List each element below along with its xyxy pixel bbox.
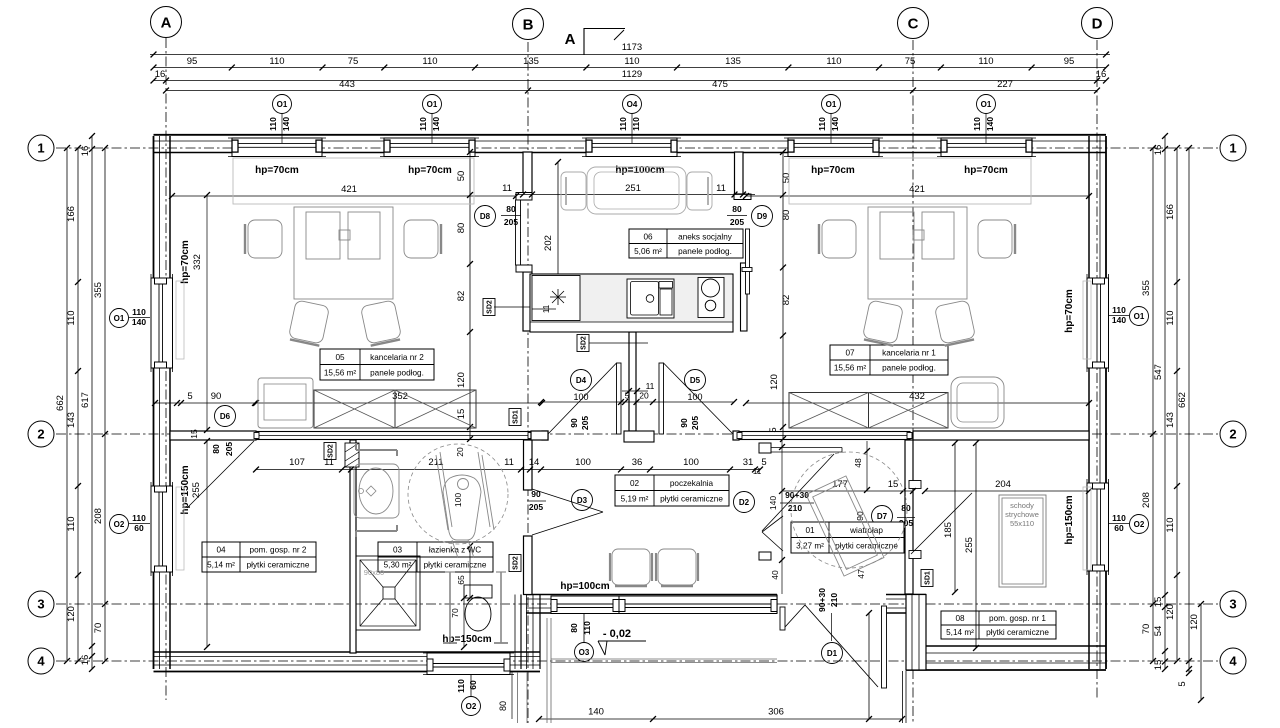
svg-text:306: 306 — [768, 707, 784, 718]
svg-text:O4: O4 — [627, 100, 638, 109]
svg-text:hp=70cm: hp=70cm — [964, 165, 1008, 176]
svg-text:SD2: SD2 — [487, 300, 494, 314]
svg-text:SD2: SD2 — [328, 444, 335, 458]
svg-text:48: 48 — [853, 458, 863, 468]
svg-text:140: 140 — [132, 317, 146, 327]
svg-text:110: 110 — [1112, 305, 1126, 315]
svg-text:pom. gosp. nr 1: pom. gosp. nr 1 — [989, 614, 1046, 623]
svg-text:31: 31 — [743, 457, 754, 468]
svg-text:03: 03 — [393, 546, 403, 555]
svg-text:443: 443 — [339, 79, 355, 90]
svg-text:110: 110 — [422, 56, 437, 67]
svg-text:11: 11 — [542, 304, 551, 313]
svg-text:płytki ceramiczne: płytki ceramiczne — [424, 561, 487, 570]
svg-text:80: 80 — [211, 444, 221, 454]
svg-text:C: C — [908, 15, 919, 32]
svg-text:pom. gosp. nr 2: pom. gosp. nr 2 — [250, 546, 307, 555]
svg-text:95: 95 — [1064, 56, 1075, 67]
svg-text:107: 107 — [289, 457, 305, 468]
svg-text:110: 110 — [66, 310, 77, 325]
svg-text:hp=70cm: hp=70cm — [811, 165, 855, 176]
svg-text:55x110: 55x110 — [1010, 519, 1034, 528]
svg-text:205: 205 — [690, 416, 700, 430]
svg-text:16: 16 — [80, 146, 91, 157]
svg-text:20: 20 — [455, 447, 465, 457]
svg-text:90x80: 90x80 — [364, 568, 384, 577]
svg-text:110: 110 — [66, 516, 77, 531]
svg-text:47: 47 — [856, 569, 866, 579]
svg-text:255: 255 — [191, 482, 202, 498]
svg-text:166: 166 — [66, 206, 77, 222]
svg-text:płytki ceramiczne: płytki ceramiczne — [247, 561, 310, 570]
svg-text:110: 110 — [978, 56, 993, 67]
svg-text:90: 90 — [531, 489, 541, 499]
svg-text:hp=70cm: hp=70cm — [180, 240, 191, 284]
svg-text:5: 5 — [768, 427, 779, 432]
svg-text:D7: D7 — [877, 512, 888, 521]
svg-text:D5: D5 — [690, 376, 701, 385]
svg-text:65: 65 — [456, 575, 466, 585]
svg-text:O1: O1 — [277, 100, 288, 109]
svg-text:110: 110 — [826, 56, 841, 67]
svg-text:185: 185 — [943, 522, 954, 538]
svg-text:100: 100 — [687, 392, 702, 402]
svg-text:1: 1 — [1229, 141, 1236, 156]
svg-text:166: 166 — [1165, 204, 1176, 220]
svg-text:15: 15 — [888, 479, 899, 490]
svg-text:547: 547 — [1153, 364, 1164, 380]
svg-text:90: 90 — [211, 391, 222, 402]
svg-text:110: 110 — [132, 307, 146, 317]
svg-text:5,06 m²: 5,06 m² — [634, 247, 662, 256]
svg-text:90+30: 90+30 — [817, 588, 827, 612]
svg-text:210: 210 — [788, 503, 802, 513]
svg-text:hp=100cm: hp=100cm — [560, 581, 609, 592]
svg-text:1129: 1129 — [622, 69, 642, 80]
svg-text:poczekalnia: poczekalnia — [670, 479, 714, 488]
svg-text:5: 5 — [187, 391, 192, 402]
svg-text:70: 70 — [1141, 624, 1152, 635]
svg-text:140: 140 — [768, 496, 778, 510]
svg-text:110: 110 — [624, 56, 639, 67]
svg-text:4: 4 — [1229, 654, 1237, 669]
svg-text:205: 205 — [730, 217, 744, 227]
svg-text:110: 110 — [972, 117, 982, 131]
svg-text:110: 110 — [1165, 517, 1176, 532]
svg-text:140: 140 — [431, 117, 441, 131]
svg-text:110: 110 — [618, 117, 628, 131]
svg-text:D9: D9 — [757, 212, 768, 221]
svg-text:110: 110 — [269, 56, 284, 67]
svg-text:204: 204 — [995, 479, 1011, 490]
svg-text:02: 02 — [630, 479, 640, 488]
svg-text:1: 1 — [37, 141, 44, 156]
svg-text:11: 11 — [324, 457, 334, 468]
svg-text:11: 11 — [504, 457, 514, 468]
svg-text:5,19 m²: 5,19 m² — [621, 494, 649, 503]
svg-text:O2: O2 — [114, 520, 125, 529]
svg-text:120: 120 — [769, 374, 780, 390]
svg-text:D4: D4 — [576, 376, 587, 385]
svg-text:3: 3 — [37, 597, 44, 612]
svg-text:75: 75 — [348, 56, 359, 67]
svg-text:120: 120 — [456, 372, 467, 388]
svg-text:20: 20 — [639, 391, 649, 401]
svg-text:5: 5 — [1177, 681, 1188, 686]
svg-text:143: 143 — [1165, 412, 1176, 428]
svg-text:75: 75 — [905, 56, 916, 67]
svg-text:strychowe: strychowe — [1005, 510, 1039, 519]
svg-text:120: 120 — [1165, 604, 1176, 620]
svg-text:90: 90 — [569, 418, 579, 428]
svg-text:A: A — [565, 31, 576, 48]
svg-text:110: 110 — [132, 513, 146, 523]
svg-text:135: 135 — [725, 56, 741, 67]
svg-text:1173: 1173 — [622, 42, 642, 53]
svg-text:08: 08 — [955, 614, 965, 623]
svg-text:80: 80 — [506, 204, 516, 214]
svg-text:hp=70cm: hp=70cm — [255, 165, 299, 176]
svg-text:O2: O2 — [1134, 520, 1145, 529]
svg-text:100: 100 — [573, 392, 588, 402]
svg-text:50: 50 — [781, 173, 792, 184]
svg-text:15,56 m²: 15,56 m² — [324, 368, 357, 377]
svg-text:355: 355 — [1141, 280, 1152, 296]
svg-text:06: 06 — [643, 232, 653, 241]
svg-text:5: 5 — [761, 457, 766, 468]
svg-text:D2: D2 — [739, 498, 750, 507]
svg-text:60: 60 — [1114, 523, 1124, 533]
svg-text:421: 421 — [341, 184, 357, 195]
svg-text:5,30 m²: 5,30 m² — [384, 561, 412, 570]
svg-text:110: 110 — [1165, 310, 1176, 325]
svg-text:54: 54 — [1153, 626, 1164, 637]
svg-text:5,14 m²: 5,14 m² — [946, 628, 974, 637]
svg-text:O1: O1 — [981, 100, 992, 109]
svg-text:82: 82 — [781, 295, 792, 306]
svg-text:100: 100 — [453, 493, 463, 507]
svg-text:110: 110 — [418, 117, 428, 131]
svg-text:płytki ceramiczne: płytki ceramiczne — [660, 494, 723, 503]
svg-text:95: 95 — [187, 56, 198, 67]
svg-text:205: 205 — [580, 416, 590, 430]
svg-text:SD1: SD1 — [925, 571, 932, 585]
svg-text:662: 662 — [55, 395, 66, 411]
svg-text:O3: O3 — [579, 648, 590, 657]
svg-text:07: 07 — [845, 349, 855, 358]
svg-text:80: 80 — [732, 204, 742, 214]
svg-text:110: 110 — [268, 117, 278, 131]
svg-text:2: 2 — [1229, 427, 1236, 442]
svg-text:15,56 m²: 15,56 m² — [834, 364, 867, 373]
svg-text:O1: O1 — [826, 100, 837, 109]
svg-text:schody: schody — [1010, 501, 1034, 510]
svg-text:D: D — [1092, 15, 1103, 32]
svg-text:100: 100 — [575, 457, 591, 468]
svg-text:15: 15 — [1153, 597, 1164, 608]
svg-text:332: 332 — [192, 254, 203, 270]
svg-text:D3: D3 — [577, 496, 588, 505]
svg-text:80: 80 — [781, 210, 792, 221]
svg-text:15: 15 — [1153, 660, 1164, 671]
svg-text:D6: D6 — [220, 412, 231, 421]
svg-text:płytki ceramiczne: płytki ceramiczne — [835, 541, 898, 550]
svg-text:panele podłog.: panele podłog. — [678, 247, 732, 256]
svg-text:16: 16 — [1096, 69, 1107, 80]
svg-text:B: B — [523, 16, 534, 33]
svg-text:110: 110 — [817, 117, 827, 131]
svg-text:90: 90 — [679, 418, 689, 428]
svg-text:40: 40 — [770, 570, 780, 580]
svg-text:140: 140 — [281, 117, 291, 131]
svg-text:110: 110 — [456, 679, 466, 693]
svg-text:3,27 m²: 3,27 m² — [796, 541, 824, 550]
svg-text:D1: D1 — [827, 649, 838, 658]
svg-text:O1: O1 — [427, 100, 438, 109]
svg-text:O1: O1 — [1134, 312, 1145, 321]
svg-text:205: 205 — [529, 502, 543, 512]
svg-text:255: 255 — [964, 537, 975, 553]
svg-text:hp=150cm: hp=150cm — [180, 465, 191, 514]
svg-text:16: 16 — [80, 655, 91, 666]
svg-text:90+30: 90+30 — [785, 490, 809, 500]
svg-text:50: 50 — [456, 171, 467, 182]
svg-text:120: 120 — [1189, 614, 1200, 630]
svg-text:panele podłog.: panele podłog. — [370, 368, 424, 377]
svg-text:15: 15 — [456, 409, 467, 420]
svg-text:4: 4 — [37, 654, 45, 669]
svg-text:140: 140 — [1112, 315, 1126, 325]
svg-text:60: 60 — [468, 680, 478, 690]
svg-text:A: A — [161, 14, 172, 31]
svg-text:04: 04 — [216, 546, 226, 555]
svg-text:110: 110 — [631, 117, 641, 131]
svg-text:208: 208 — [93, 508, 104, 524]
svg-text:SD1: SD1 — [513, 410, 520, 424]
svg-text:421: 421 — [909, 184, 925, 195]
svg-text:120: 120 — [66, 606, 77, 622]
svg-text:475: 475 — [712, 79, 728, 90]
svg-text:- 0,02: - 0,02 — [603, 628, 631, 640]
svg-text:80: 80 — [901, 503, 911, 513]
svg-text:205: 205 — [504, 217, 518, 227]
svg-text:01: 01 — [805, 526, 815, 535]
svg-text:11: 11 — [646, 381, 655, 391]
svg-text:hp=150cm: hp=150cm — [1064, 495, 1075, 544]
svg-text:3: 3 — [1229, 597, 1236, 612]
svg-text:60: 60 — [134, 523, 144, 533]
svg-text:05: 05 — [335, 353, 345, 362]
svg-text:11: 11 — [502, 183, 512, 194]
svg-text:80: 80 — [569, 623, 579, 633]
svg-text:135: 135 — [523, 56, 539, 67]
svg-text:140: 140 — [830, 117, 840, 131]
svg-text:110: 110 — [1112, 513, 1126, 523]
svg-text:SD2: SD2 — [513, 556, 520, 570]
svg-text:355: 355 — [93, 282, 104, 298]
svg-text:aneks socjalny: aneks socjalny — [678, 232, 733, 241]
svg-text:O1: O1 — [114, 314, 125, 323]
svg-text:208: 208 — [1141, 492, 1152, 508]
svg-text:16: 16 — [1153, 145, 1164, 156]
svg-text:panele podłog.: panele podłog. — [882, 364, 936, 373]
svg-text:82: 82 — [456, 291, 467, 302]
svg-text:O2: O2 — [466, 702, 477, 711]
svg-text:110: 110 — [582, 621, 592, 635]
svg-text:80: 80 — [456, 223, 467, 234]
svg-text:210: 210 — [829, 593, 839, 607]
svg-text:36: 36 — [632, 457, 643, 468]
svg-text:2: 2 — [37, 427, 44, 442]
svg-text:80: 80 — [498, 701, 508, 711]
svg-text:70: 70 — [450, 608, 460, 618]
svg-text:617: 617 — [80, 392, 91, 408]
svg-text:205: 205 — [224, 442, 234, 456]
svg-text:143: 143 — [66, 412, 77, 428]
svg-text:251: 251 — [625, 183, 641, 194]
svg-text:SD2: SD2 — [581, 336, 588, 350]
svg-text:kancelaria nr 1: kancelaria nr 1 — [882, 349, 936, 358]
svg-text:100: 100 — [683, 457, 699, 468]
svg-text:662: 662 — [1177, 392, 1188, 408]
svg-text:16: 16 — [155, 69, 166, 80]
svg-text:hp=70cm: hp=70cm — [408, 165, 452, 176]
svg-text:90: 90 — [855, 511, 865, 521]
svg-text:płytki ceramiczne: płytki ceramiczne — [986, 628, 1049, 637]
svg-text:14: 14 — [529, 457, 540, 468]
svg-text:15: 15 — [189, 429, 199, 439]
svg-text:5,14 m²: 5,14 m² — [207, 561, 235, 570]
svg-text:11: 11 — [716, 183, 726, 194]
svg-text:kancelaria nr 2: kancelaria nr 2 — [370, 353, 424, 362]
svg-text:140: 140 — [985, 117, 995, 131]
svg-text:202: 202 — [543, 235, 554, 251]
svg-text:140: 140 — [588, 707, 604, 718]
svg-text:70: 70 — [93, 623, 104, 634]
svg-text:227: 227 — [997, 79, 1013, 90]
svg-text:D8: D8 — [480, 212, 491, 221]
svg-text:hp=70cm: hp=70cm — [1064, 289, 1075, 333]
